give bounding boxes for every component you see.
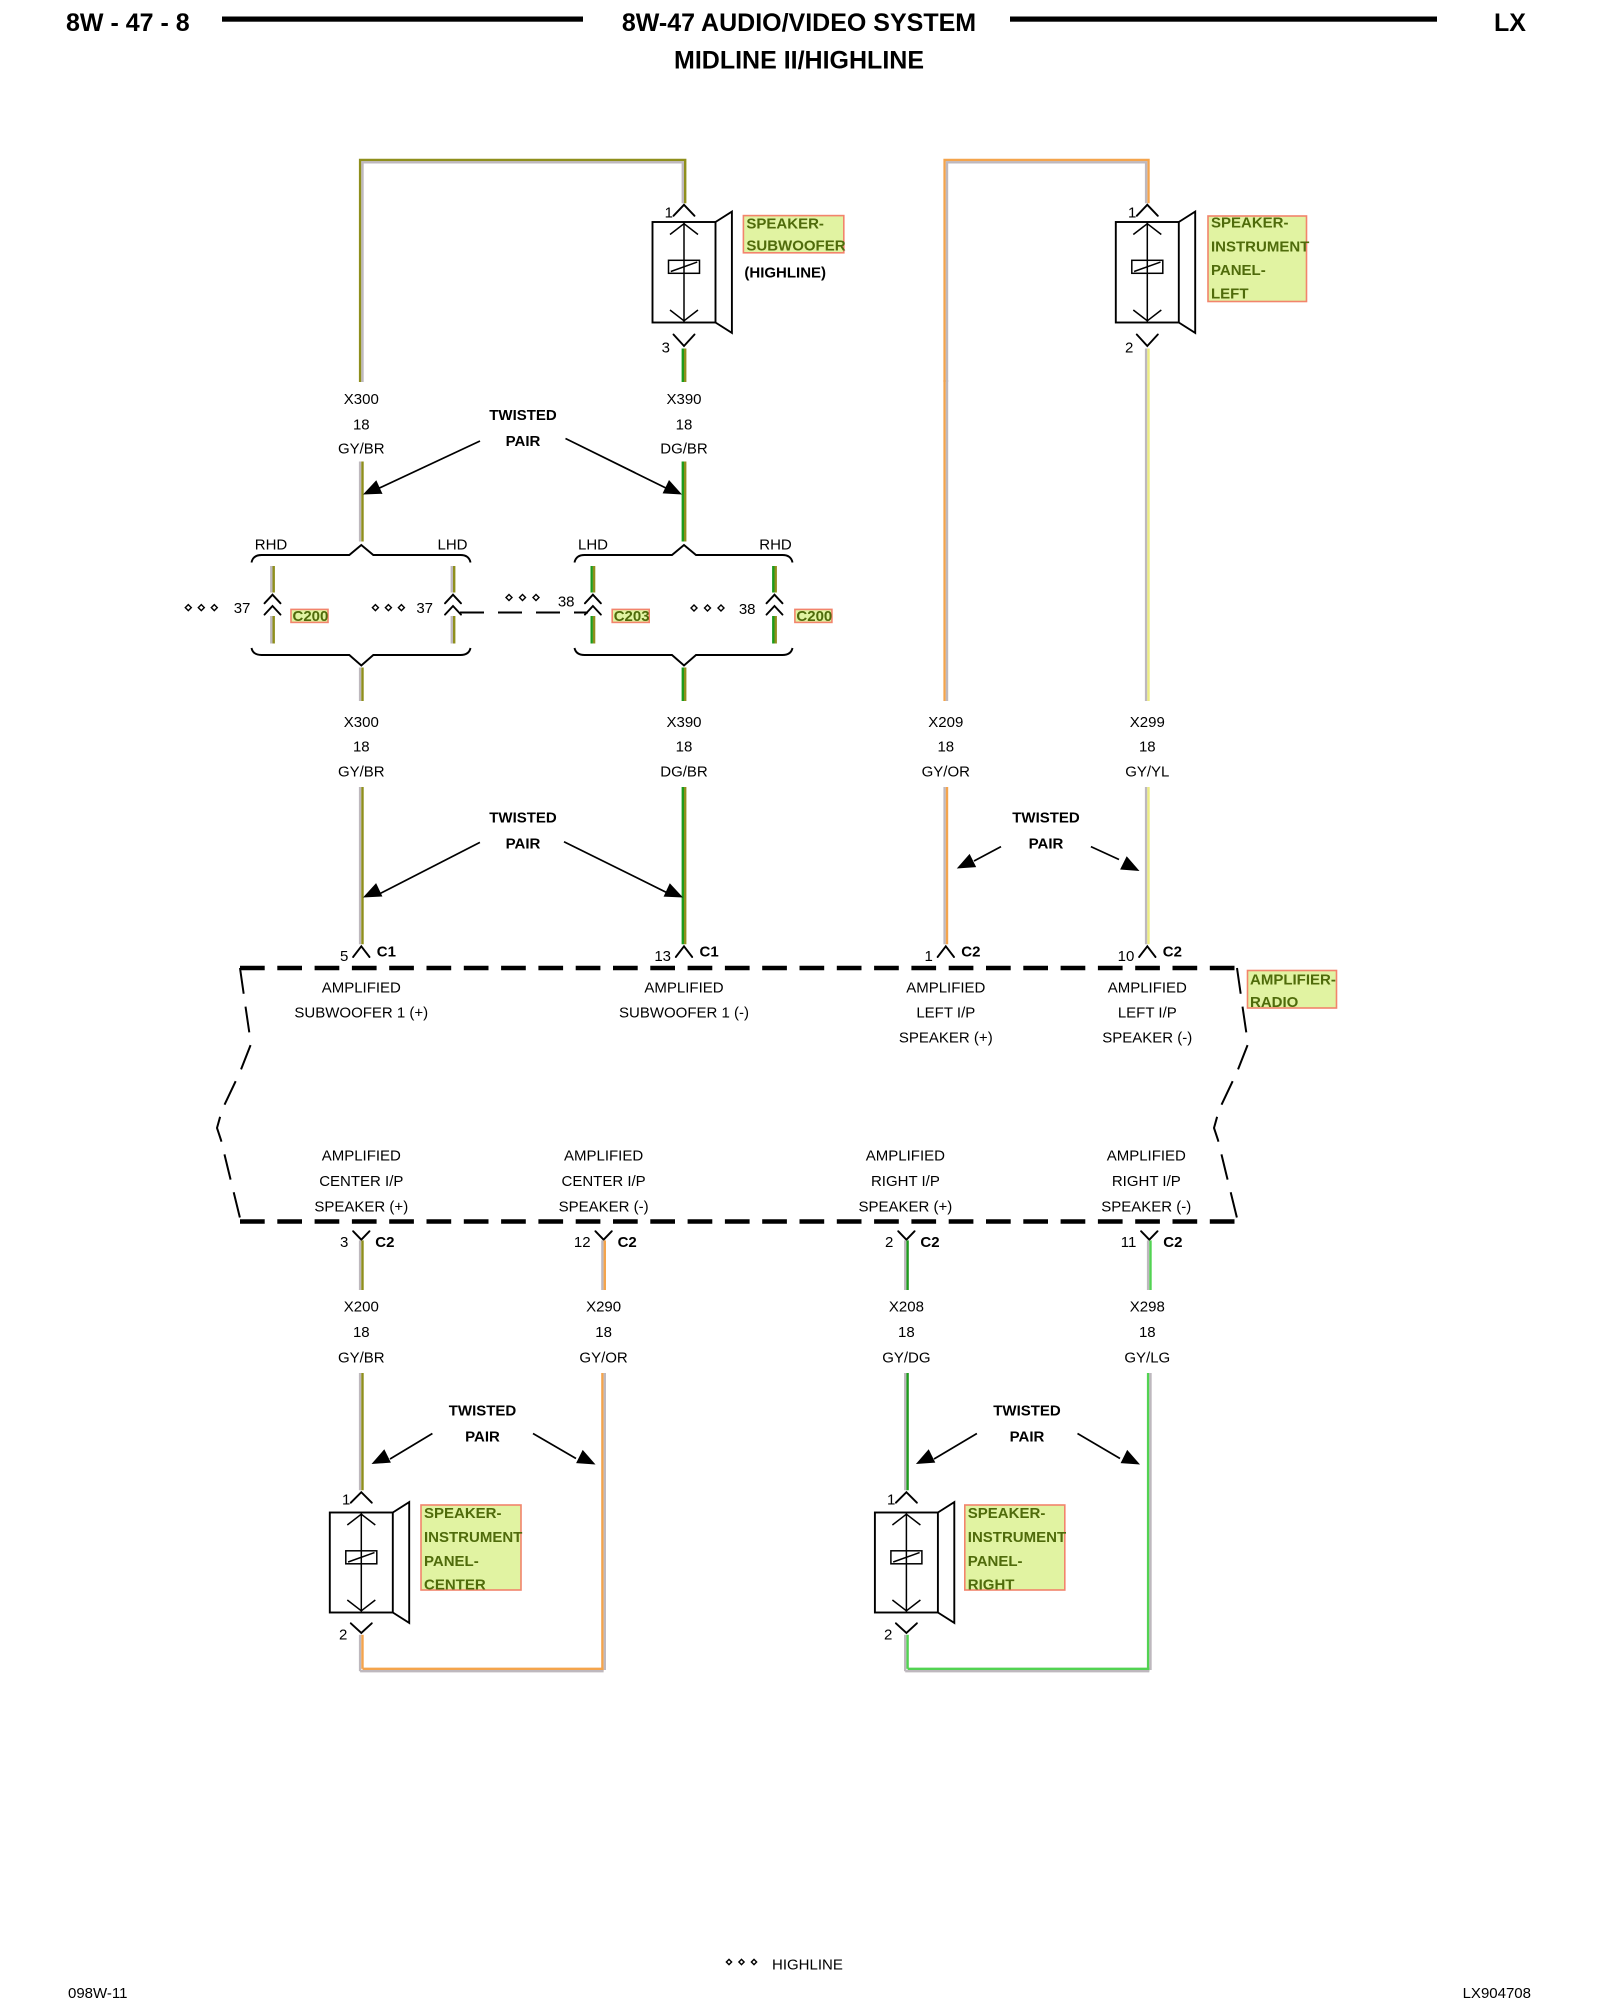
- wire LHD branch stub DG/BR: [592, 566, 594, 593]
- svg-text:SUBWOOFER: SUBWOOFER: [746, 238, 845, 255]
- connector C2 pin 1 (top of amplifier): [924, 944, 980, 966]
- svg-text:2: 2: [1125, 340, 1133, 357]
- svg-text:TWISTED: TWISTED: [489, 407, 557, 424]
- connector C1 pin 5 (top of amplifier): [340, 944, 396, 966]
- svg-text:LHD: LHD: [437, 537, 467, 554]
- wire X290 GY/OR from C2 pin 12: [602, 1240, 604, 1290]
- svg-text:18: 18: [1139, 1324, 1156, 1341]
- wire label label X390 18 DG/BR (upper): [660, 391, 708, 458]
- amplifier-radio box right torn edge: [1214, 968, 1248, 1218]
- twisted pair arrow to X298: [1078, 1434, 1141, 1465]
- svg-text:RHD: RHD: [255, 537, 288, 554]
- svg-text:SPEAKER (+): SPEAKER (+): [899, 1029, 993, 1046]
- svg-text:1: 1: [665, 204, 673, 221]
- svg-text:GY/BR: GY/BR: [338, 764, 385, 781]
- twisted pair arrow to X200: [372, 1434, 433, 1465]
- wire X390 DG/BR below subwoofer pin 3: [683, 349, 685, 383]
- svg-text:INSTRUMENT: INSTRUMENT: [1211, 238, 1309, 255]
- svg-text:TWISTED: TWISTED: [1012, 810, 1080, 827]
- dots before pin 38 (RHD): [691, 605, 724, 611]
- svg-text:AMPLIFIED: AMPLIFIED: [564, 1148, 643, 1165]
- svg-text:RADIO: RADIO: [1250, 994, 1299, 1011]
- twisted pair arrow to X300: [363, 441, 480, 495]
- wire LHD branch stub GY/BR: [452, 566, 454, 593]
- svg-text:1: 1: [887, 1492, 895, 1509]
- svg-text:8W - 47 - 8: 8W - 47 - 8: [66, 9, 190, 37]
- label box C203: [612, 609, 649, 622]
- twisted pair arrow to X390 lower: [564, 842, 683, 898]
- svg-text:1: 1: [342, 1492, 350, 1509]
- svg-text:12: 12: [574, 1234, 591, 1251]
- header rule left: [222, 17, 583, 22]
- svg-text:DG/BR: DG/BR: [660, 764, 708, 781]
- wire X290 GY/OR run to IP-center pin 2: [360, 1373, 605, 1671]
- pin 1 connector of speaker SPEAKER-SUBWOOFER (HIGHLINE): [665, 204, 695, 221]
- amplifier pin function label AMPLIFIED SUBWOOFER 1 (+): [294, 979, 428, 1021]
- brace under C203 group (bottom): [575, 648, 793, 666]
- wire RHD branch stub GY/BR: [271, 566, 273, 593]
- wire label label X390 18 DG/BR (lower): [660, 714, 708, 781]
- wire X300 GY/BR into C1 pin 5: [360, 787, 362, 944]
- svg-text:PANEL-: PANEL-: [968, 1553, 1023, 1570]
- twisted pair arrow to X209: [957, 847, 1001, 869]
- svg-text:LEFT: LEFT: [1211, 285, 1249, 302]
- svg-text:PAIR: PAIR: [506, 433, 541, 450]
- pin 1 connector of speaker SPEAKER-INSTRUMENT PANEL-RIGHT: [887, 1492, 917, 1509]
- svg-text:PAIR: PAIR: [506, 836, 541, 853]
- wire X390 DG/BR below brace: [683, 668, 685, 702]
- connector C2 pin 12 (bottom of amplifier): [574, 1231, 637, 1251]
- label box SPEAKER-SUBWOOFER: [743, 216, 845, 255]
- svg-text:C2: C2: [1163, 944, 1182, 961]
- svg-text:18: 18: [353, 417, 370, 434]
- svg-text:SPEAKER (+): SPEAKER (+): [859, 1199, 953, 1216]
- svg-text:2: 2: [884, 1627, 892, 1644]
- label box SPEAKER-INSTRUMENT PANEL-LEFT: [1208, 215, 1309, 303]
- svg-text:RIGHT I/P: RIGHT I/P: [1112, 1173, 1181, 1190]
- svg-text:18: 18: [676, 739, 693, 756]
- wire LHD branch stub GY/BR lower: [452, 616, 454, 644]
- svg-text:1: 1: [1128, 204, 1136, 221]
- svg-text:CENTER: CENTER: [424, 1577, 486, 1594]
- label TWISTED PAIR (top): [489, 407, 557, 450]
- connector chevrons on LHD stub (C203): [585, 595, 601, 615]
- svg-text:X300: X300: [344, 714, 379, 731]
- svg-text:C2: C2: [961, 944, 980, 961]
- label TWISTED PAIR (bottom right): [993, 1403, 1061, 1446]
- svg-text:GY/LG: GY/LG: [1124, 1350, 1170, 1367]
- svg-text:3: 3: [662, 340, 670, 357]
- wire X299 GY/YL into C2 pin 10: [1146, 787, 1148, 944]
- svg-text:38: 38: [558, 594, 575, 611]
- svg-text:37: 37: [416, 600, 433, 617]
- svg-text:RIGHT: RIGHT: [968, 1577, 1015, 1594]
- svg-text:GY/BR: GY/BR: [338, 441, 385, 458]
- wire X200 GY/BR from C2 pin 3: [360, 1240, 362, 1290]
- connector chevrons on RHD stub (C200): [767, 595, 783, 615]
- label box SPEAKER-INSTRUMENT PANEL-RIGHT: [965, 1505, 1066, 1594]
- svg-text:GY/YL: GY/YL: [1125, 764, 1169, 781]
- amplifier-radio box top dashed edge: [240, 966, 1237, 971]
- svg-text:C200: C200: [796, 608, 832, 625]
- svg-text:LEFT I/P: LEFT I/P: [916, 1004, 975, 1021]
- svg-text:18: 18: [676, 417, 693, 434]
- label box C200-b: [795, 609, 832, 622]
- svg-text:C1: C1: [377, 944, 396, 961]
- wire label label X290 18 GY/OR: [579, 1299, 628, 1367]
- brace under C200 group (bottom): [252, 648, 471, 666]
- wire label label X300 18 GY/BR (upper): [338, 391, 385, 458]
- header rule right: [1010, 17, 1437, 22]
- speaker SPEAKER-INSTRUMENT PANEL-RIGHT: [875, 1502, 954, 1623]
- svg-text:1: 1: [924, 948, 932, 965]
- svg-text:SPEAKER (-): SPEAKER (-): [1102, 1029, 1192, 1046]
- svg-text:X290: X290: [586, 1299, 621, 1316]
- connector C2 pin 2 (bottom of amplifier): [885, 1231, 940, 1251]
- label box AMPLIFIER-RADIO: [1248, 971, 1337, 1012]
- wire X390 DG/BR above C203 brace: [683, 462, 685, 542]
- svg-text:(HIGHLINE): (HIGHLINE): [744, 264, 826, 281]
- svg-text:AMPLIFIED: AMPLIFIED: [322, 979, 401, 996]
- connector C2 pin 3 (bottom of amplifier): [340, 1231, 395, 1251]
- wire RHD branch stub DG/BR lower: [773, 616, 775, 644]
- svg-text:SPEAKER-: SPEAKER-: [1211, 215, 1289, 232]
- svg-text:SPEAKER (-): SPEAKER (-): [559, 1199, 649, 1216]
- connector C1 pin 13 (top of amplifier): [654, 944, 718, 966]
- wire label label X298 18 GY/LG: [1124, 1299, 1170, 1367]
- amplifier pin function label AMPLIFIED SUBWOOFER 1 (-): [619, 979, 749, 1021]
- wire label label X209 18 GY/OR: [922, 714, 971, 781]
- svg-text:INSTRUMENT: INSTRUMENT: [968, 1529, 1066, 1546]
- svg-text:LHD: LHD: [578, 537, 608, 554]
- svg-text:LX904708: LX904708: [1463, 1985, 1531, 2000]
- wire label label X200 18 GY/BR: [338, 1299, 385, 1367]
- svg-text:HIGHLINE: HIGHLINE: [772, 1957, 843, 1974]
- svg-text:PANEL-: PANEL-: [424, 1553, 479, 1570]
- label TWISTED PAIR (middle right): [1012, 810, 1080, 853]
- label TWISTED PAIR (bottom left): [449, 1403, 517, 1446]
- svg-text:SPEAKER-: SPEAKER-: [424, 1505, 502, 1522]
- dots before pin 37 (LHD): [372, 605, 404, 611]
- svg-text:X300: X300: [344, 391, 379, 408]
- svg-text:C2: C2: [375, 1234, 394, 1251]
- svg-text:CENTER I/P: CENTER I/P: [319, 1173, 403, 1190]
- brace LHD/RHD over C203 (top): [575, 545, 793, 563]
- svg-text:AMPLIFIED: AMPLIFIED: [906, 979, 985, 996]
- svg-text:18: 18: [595, 1324, 612, 1341]
- svg-text:5: 5: [340, 948, 348, 965]
- svg-text:X299: X299: [1130, 714, 1165, 731]
- svg-text:PANEL-: PANEL-: [1211, 262, 1266, 279]
- svg-text:18: 18: [353, 1324, 370, 1341]
- brace RHD/LHD over C200 (top): [252, 545, 471, 563]
- amplifier pin function label AMPLIFIED RIGHT I/P SPEAKER (-): [1101, 1148, 1191, 1216]
- svg-text:13: 13: [654, 948, 671, 965]
- svg-text:GY/DG: GY/DG: [882, 1350, 930, 1367]
- wire RHD branch stub DG/BR: [773, 566, 775, 593]
- wire label label X299 18 GY/YL: [1125, 714, 1169, 781]
- svg-text:C2: C2: [618, 1234, 637, 1251]
- svg-text:098W-11: 098W-11: [68, 1985, 127, 2000]
- svg-text:18: 18: [353, 739, 370, 756]
- svg-text:18: 18: [937, 739, 954, 756]
- speaker SPEAKER-INSTRUMENT PANEL-LEFT: [1116, 212, 1195, 333]
- svg-text:GY/BR: GY/BR: [338, 1350, 385, 1367]
- svg-text:11: 11: [1121, 1234, 1137, 1251]
- twisted pair arrow to X299: [1091, 847, 1140, 871]
- footer legend dots: [726, 1959, 756, 1964]
- svg-text:C2: C2: [920, 1234, 939, 1251]
- pin 2 connector of speaker SPEAKER-INSTRUMENT PANEL-LEFT: [1125, 335, 1158, 357]
- svg-text:SUBWOOFER 1 (-): SUBWOOFER 1 (-): [619, 1004, 749, 1021]
- pin 2 connector of speaker SPEAKER-INSTRUMENT PANEL-CENTER: [339, 1623, 372, 1643]
- wire X298 GY/LG from C2 pin 11: [1148, 1240, 1150, 1290]
- dots on link: [506, 595, 539, 601]
- wire X209 GY/OR into C2 pin 1: [945, 787, 947, 944]
- wire LHD branch stub DG/BR lower: [592, 616, 594, 644]
- wire X300 GY/BR loop from amplifier to subwoofer pin 1: [360, 160, 685, 382]
- svg-text:RIGHT I/P: RIGHT I/P: [871, 1173, 940, 1190]
- svg-text:GY/OR: GY/OR: [579, 1350, 628, 1367]
- svg-text:LEFT I/P: LEFT I/P: [1118, 1004, 1177, 1021]
- pin 1 connector of speaker SPEAKER-INSTRUMENT PANEL-LEFT: [1128, 204, 1158, 221]
- svg-text:X208: X208: [889, 1299, 924, 1316]
- wire RHD branch stub GY/BR lower: [271, 616, 273, 644]
- wire X300 GY/BR above C200 brace: [360, 462, 362, 542]
- wire X208 GY/DG from C2 pin 2: [905, 1240, 907, 1290]
- label TWISTED PAIR (middle left): [489, 810, 557, 853]
- pin 2 connector of speaker SPEAKER-INSTRUMENT PANEL-RIGHT: [884, 1623, 917, 1643]
- wire label label X300 18 GY/BR (lower): [338, 714, 385, 781]
- svg-text:AMPLIFIER-: AMPLIFIER-: [1250, 972, 1336, 989]
- svg-text:PAIR: PAIR: [1029, 836, 1064, 853]
- svg-text:2: 2: [885, 1234, 893, 1251]
- svg-text:SPEAKER-: SPEAKER-: [968, 1505, 1046, 1522]
- dashed link line between LHD stubs: [460, 612, 588, 614]
- svg-text:C2: C2: [1163, 1234, 1182, 1251]
- svg-text:AMPLIFIED: AMPLIFIED: [322, 1148, 401, 1165]
- svg-text:2: 2: [339, 1627, 347, 1644]
- pin 3 connector of speaker SPEAKER-SUBWOOFER (HIGHLINE): [662, 335, 695, 357]
- svg-text:8W-47 AUDIO/VIDEO SYSTEM: 8W-47 AUDIO/VIDEO SYSTEM: [622, 9, 976, 37]
- svg-text:TWISTED: TWISTED: [489, 810, 557, 827]
- twisted pair arrow to X290: [533, 1434, 596, 1465]
- connector chevrons on RHD stub: [265, 595, 281, 615]
- svg-text:TWISTED: TWISTED: [993, 1403, 1061, 1420]
- svg-text:LX: LX: [1494, 9, 1526, 37]
- connector chevrons on LHD stub: [445, 595, 461, 615]
- amplifier pin function label AMPLIFIED RIGHT I/P SPEAKER (+): [859, 1148, 953, 1216]
- svg-text:X390: X390: [666, 391, 701, 408]
- svg-text:C1: C1: [700, 944, 719, 961]
- svg-text:X390: X390: [666, 714, 701, 731]
- amplifier-radio box bottom dashed edge: [240, 1219, 1237, 1224]
- svg-text:AMPLIFIED: AMPLIFIED: [1108, 979, 1187, 996]
- twisted pair arrow to X390: [566, 439, 683, 495]
- connector C2 pin 11 (bottom of amplifier): [1121, 1231, 1183, 1251]
- svg-text:AMPLIFIED: AMPLIFIED: [866, 1148, 945, 1165]
- svg-text:38: 38: [739, 601, 756, 618]
- svg-text:X200: X200: [344, 1299, 379, 1316]
- speaker SPEAKER-INSTRUMENT PANEL-CENTER: [330, 1502, 409, 1623]
- wire X298 GY/LG run to IP-right pin 2: [905, 1373, 1150, 1671]
- svg-text:MIDLINE II/HIGHLINE: MIDLINE II/HIGHLINE: [674, 47, 924, 75]
- svg-text:18: 18: [898, 1324, 915, 1341]
- svg-text:SPEAKER (-): SPEAKER (-): [1101, 1199, 1191, 1216]
- label box C200-a: [291, 609, 328, 622]
- svg-text:INSTRUMENT: INSTRUMENT: [424, 1529, 522, 1546]
- wire X200 GY/BR into IP-center pin 1: [360, 1373, 362, 1490]
- amplifier pin function label AMPLIFIED LEFT I/P SPEAKER (-): [1102, 979, 1192, 1046]
- svg-text:CENTER I/P: CENTER I/P: [562, 1173, 646, 1190]
- wire X299 GY/YL below IP-left pin 2: [1146, 349, 1148, 702]
- svg-text:PAIR: PAIR: [465, 1429, 500, 1446]
- svg-text:18: 18: [1139, 739, 1156, 756]
- label box SPEAKER-INSTRUMENT PANEL-CENTER: [421, 1505, 522, 1594]
- svg-text:AMPLIFIED: AMPLIFIED: [1107, 1148, 1186, 1165]
- connector C2 pin 10 (top of amplifier): [1118, 944, 1182, 966]
- svg-text:DG/BR: DG/BR: [660, 441, 708, 458]
- dots before pin 37: [185, 605, 217, 611]
- amplifier pin function label AMPLIFIED CENTER I/P SPEAKER (+): [314, 1148, 408, 1216]
- wire X209 GY/OR loop from amplifier to IP-left speaker pin 1: [945, 160, 1149, 382]
- speaker SPEAKER-SUBWOOFER (HIGHLINE): [653, 212, 732, 333]
- svg-text:X209: X209: [928, 714, 963, 731]
- pin 1 connector of speaker SPEAKER-INSTRUMENT PANEL-CENTER: [342, 1492, 372, 1509]
- svg-text:3: 3: [340, 1234, 348, 1251]
- svg-text:PAIR: PAIR: [1010, 1429, 1045, 1446]
- svg-text:C203: C203: [614, 608, 650, 625]
- wire X390 DG/BR into C1 pin 13: [683, 787, 685, 944]
- wire X208 GY/DG into IP-right pin 1: [905, 1373, 907, 1490]
- amplifier pin function label AMPLIFIED LEFT I/P SPEAKER (+): [899, 979, 993, 1046]
- svg-text:GY/OR: GY/OR: [922, 764, 971, 781]
- twisted pair arrow to X300 lower: [363, 842, 480, 897]
- svg-text:SPEAKER-: SPEAKER-: [746, 216, 824, 233]
- wire label label X208 18 GY/DG: [882, 1299, 930, 1367]
- amplifier-radio box left torn edge: [217, 968, 251, 1218]
- svg-text:RHD: RHD: [759, 537, 792, 554]
- svg-text:TWISTED: TWISTED: [449, 1403, 517, 1420]
- svg-text:37: 37: [234, 600, 251, 617]
- twisted pair arrow to X208: [916, 1434, 977, 1465]
- svg-text:SUBWOOFER 1 (+): SUBWOOFER 1 (+): [294, 1004, 428, 1021]
- amplifier pin function label AMPLIFIED CENTER I/P SPEAKER (-): [559, 1148, 649, 1216]
- svg-text:SPEAKER (+): SPEAKER (+): [314, 1199, 408, 1216]
- svg-text:10: 10: [1118, 948, 1135, 965]
- wire X300 GY/BR below brace: [360, 668, 362, 702]
- svg-text:X298: X298: [1130, 1299, 1165, 1316]
- wire X209 GY/OR continuing: [945, 380, 947, 701]
- svg-text:AMPLIFIED: AMPLIFIED: [644, 979, 723, 996]
- svg-text:C200: C200: [293, 608, 329, 625]
